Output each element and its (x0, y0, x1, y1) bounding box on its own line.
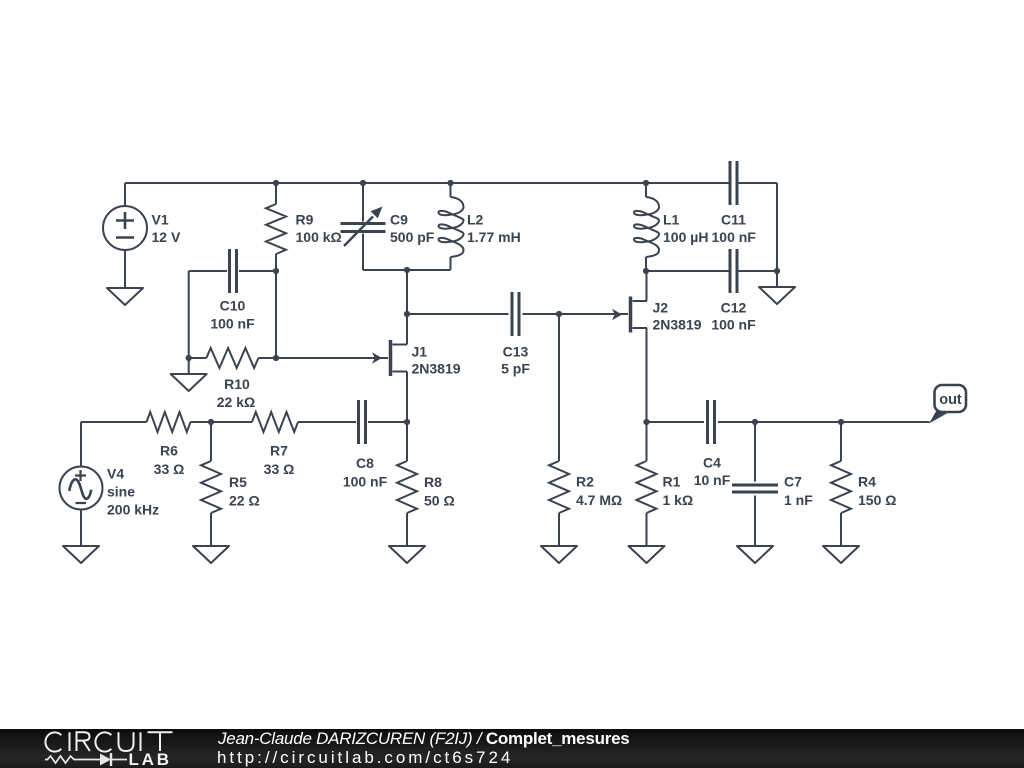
svg-text:L1: L1 (663, 212, 680, 228)
svg-text:2N3819: 2N3819 (653, 317, 702, 333)
svg-text:R6: R6 (160, 443, 178, 459)
svg-text:4.7 MΩ: 4.7 MΩ (576, 492, 622, 508)
svg-text:150 Ω: 150 Ω (858, 492, 896, 508)
svg-text:10 nF: 10 nF (694, 472, 731, 488)
svg-text:V4: V4 (107, 466, 124, 482)
svg-text:100 nF: 100 nF (712, 229, 757, 245)
svg-text:5 pF: 5 pF (501, 361, 530, 377)
svg-text:C12: C12 (721, 300, 747, 316)
svg-text:J1: J1 (412, 344, 428, 360)
svg-text:R1: R1 (663, 474, 681, 490)
svg-text:C11: C11 (721, 212, 746, 228)
svg-text:100 nF: 100 nF (711, 317, 756, 333)
svg-text:LAB: LAB (129, 750, 172, 768)
svg-text:100 nF: 100 nF (210, 316, 255, 332)
svg-text:33 Ω: 33 Ω (154, 461, 185, 477)
svg-text:C13: C13 (503, 344, 529, 360)
svg-text:C10: C10 (220, 298, 246, 314)
svg-text:R5: R5 (229, 474, 247, 490)
svg-text:22 Ω: 22 Ω (229, 493, 260, 509)
svg-text:R7: R7 (270, 443, 288, 459)
svg-text:33 Ω: 33 Ω (264, 461, 295, 477)
svg-text:L2: L2 (467, 212, 484, 228)
svg-text:R4: R4 (858, 474, 876, 490)
svg-text:1.77 mH: 1.77 mH (467, 229, 521, 245)
svg-text:C4: C4 (703, 455, 721, 471)
svg-text:R10: R10 (224, 376, 250, 392)
svg-text:50 Ω: 50 Ω (424, 493, 455, 509)
svg-text:R2: R2 (576, 474, 594, 490)
svg-text:500 pF: 500 pF (390, 229, 435, 245)
svg-text:22 kΩ: 22 kΩ (217, 394, 255, 410)
svg-text:12 V: 12 V (152, 229, 181, 245)
svg-text:1 kΩ: 1 kΩ (663, 492, 694, 508)
svg-text:C9: C9 (390, 212, 408, 228)
svg-text:C8: C8 (356, 455, 374, 471)
svg-text:sine: sine (107, 484, 135, 500)
svg-text:100 kΩ: 100 kΩ (296, 229, 342, 245)
svg-text:100 µH: 100 µH (663, 229, 708, 245)
svg-text:R9: R9 (296, 212, 314, 228)
svg-text:1 nF: 1 nF (784, 492, 813, 508)
svg-text:J2: J2 (653, 300, 669, 316)
svg-text:2N3819: 2N3819 (412, 361, 461, 377)
svg-text:V1: V1 (152, 212, 169, 228)
svg-text:100 nF: 100 nF (343, 474, 388, 490)
svg-text:R8: R8 (424, 474, 442, 490)
svg-text:200 kHz: 200 kHz (107, 502, 159, 518)
svg-text:out: out (939, 392, 962, 408)
svg-text:C7: C7 (784, 474, 802, 490)
